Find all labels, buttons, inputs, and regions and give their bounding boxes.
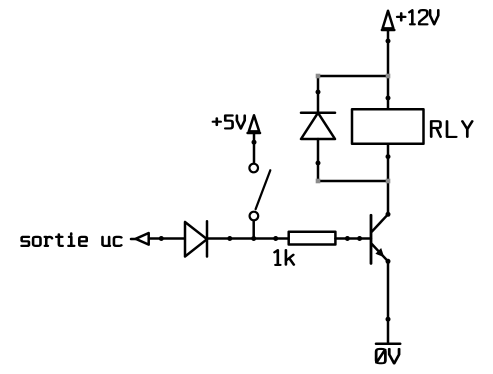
junction dot below relay — [386, 154, 391, 159]
wire corner down to flyback diode — [317, 76, 320, 113]
resistor R1 — [289, 232, 336, 245]
diode D2 — [185, 221, 207, 256]
junction dot above relay — [386, 96, 391, 101]
wire diode D2 to resistor — [207, 237, 289, 240]
wire emitter to ground — [387, 261, 390, 343]
wire +12V to relay — [387, 30, 390, 109]
RLY label — [431, 121, 472, 137]
node corner square bottom right — [386, 179, 391, 184]
+5V label — [213, 115, 245, 128]
junction dot emitter node — [386, 259, 391, 264]
wire switch to main line — [252, 221, 255, 239]
junction dot below flyback diode — [316, 161, 321, 166]
junction dot below +5V arrow — [252, 140, 257, 145]
junction dot base wire 1 — [345, 236, 350, 241]
junction dot below +12V arrow — [386, 39, 391, 44]
junction dot collector node — [386, 212, 391, 217]
ground bar 0V rail — [376, 342, 400, 345]
node corner square bottom left — [316, 179, 321, 184]
input terminal arrow — [131, 233, 149, 245]
+12V label — [397, 10, 438, 24]
0V label — [376, 349, 399, 364]
switch SW1 — [249, 164, 270, 221]
node corner square top left — [316, 74, 321, 79]
wire bottom horizontal — [318, 180, 388, 183]
power symbol +5V arrow — [248, 115, 260, 133]
wire +5V arrow to switch — [253, 133, 256, 163]
wire flyback diode anode down — [317, 139, 320, 181]
1k label — [275, 250, 294, 265]
junction dot after input arrow — [159, 236, 164, 241]
transistor Q1 — [371, 214, 388, 263]
relay coil RLY — [352, 109, 424, 144]
flyback diode D1 — [301, 113, 335, 139]
wire arrow to diode D2 — [149, 237, 185, 240]
junction dot after diode D2 — [227, 236, 232, 241]
junction dot above flyback diode — [316, 90, 321, 95]
junction dot after switch node — [273, 236, 278, 241]
node corner square top right — [386, 74, 391, 79]
junction dot on ground wire — [386, 317, 391, 322]
sortie uc label — [22, 233, 122, 246]
junction dot switch node — [251, 236, 256, 241]
wire top horizontal — [318, 75, 388, 78]
junction dot base wire 2 — [357, 236, 362, 241]
wire resistor to base — [335, 237, 371, 240]
power symbol +12V arrow — [382, 11, 394, 30]
wire relay to collector — [387, 144, 390, 215]
